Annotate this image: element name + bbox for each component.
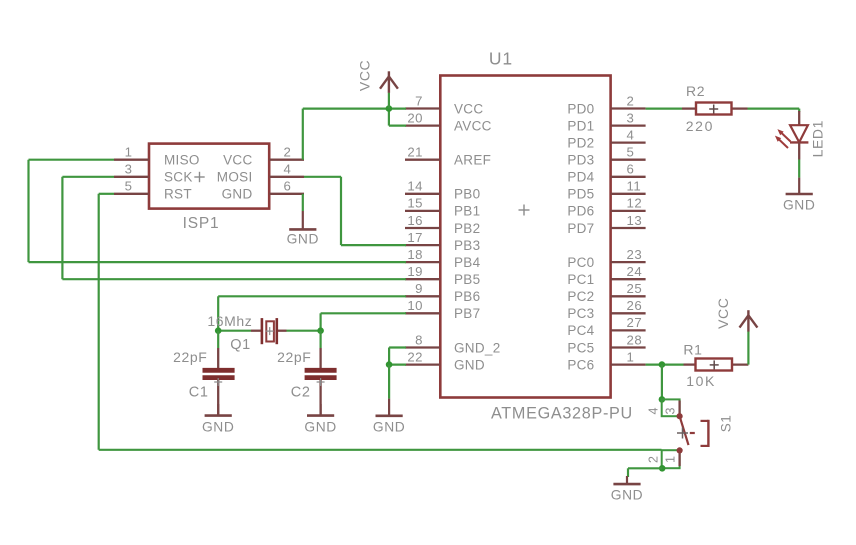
svg-text:2: 2 bbox=[647, 456, 661, 463]
wire PC6 to junction bbox=[646, 364, 684, 366]
svg-text:LED1: LED1 bbox=[810, 120, 826, 157]
resistor R2 bbox=[682, 103, 748, 115]
node XTAL2 junction bbox=[317, 327, 324, 334]
svg-text:PD0: PD0 bbox=[567, 101, 594, 116]
wire GND pin22 left bbox=[389, 364, 406, 366]
crystal Q1 bbox=[251, 318, 287, 344]
wire SCK: ISP pin3 left bbox=[62, 176, 114, 178]
wire XTAL2: U1 PB7 left bbox=[321, 312, 406, 314]
U1 pin 1 PC6 (right) bbox=[567, 349, 645, 372]
U1 pin 26 PC3 (right) bbox=[567, 298, 645, 321]
switch S1 pin 1 label bbox=[663, 456, 677, 463]
resistor R1 bbox=[684, 359, 749, 371]
wire RST: long bottom run to S1 bbox=[99, 449, 662, 451]
svg-text:21: 21 bbox=[407, 145, 423, 160]
svg-text:12: 12 bbox=[627, 196, 643, 211]
switch S1 top contact loop bbox=[662, 399, 683, 419]
svg-text:PB3: PB3 bbox=[454, 238, 480, 253]
svg-text:1: 1 bbox=[663, 456, 677, 463]
switch S1 lever bbox=[680, 416, 689, 445]
wire C2 top bbox=[320, 331, 322, 348]
capacitor C1 label bbox=[189, 384, 209, 400]
svg-text:R2: R2 bbox=[686, 83, 705, 99]
wire junction down to S1 bbox=[661, 365, 663, 400]
svg-text:C1: C1 bbox=[189, 384, 209, 400]
svg-text:PB7: PB7 bbox=[454, 306, 480, 321]
svg-text:PC6: PC6 bbox=[567, 357, 594, 372]
resistor R1 value 10K bbox=[686, 373, 716, 389]
svg-text:PC3: PC3 bbox=[567, 306, 594, 321]
node S1 top junction bbox=[659, 396, 666, 403]
U1 pin 21 AREF (left) bbox=[405, 145, 491, 168]
svg-text:MISO: MISO bbox=[164, 153, 200, 168]
U1 pin 5 PD3 (right) bbox=[567, 145, 645, 168]
svg-text:S1: S1 bbox=[719, 415, 734, 433]
svg-text:10: 10 bbox=[407, 298, 423, 313]
ISP1 pin 4 MOSI (right) bbox=[217, 162, 304, 185]
wire crystal left segment bbox=[218, 330, 251, 332]
svg-text:PD1: PD1 bbox=[567, 118, 594, 133]
svg-text:PC0: PC0 bbox=[567, 255, 594, 270]
resistor R2 label bbox=[686, 83, 705, 99]
U1 pin 15 PB1 (left) bbox=[405, 196, 480, 219]
IC U1 value label ATMEGA328P-PU bbox=[491, 404, 633, 422]
switch S1 pin 4 label bbox=[647, 408, 661, 415]
node GND junction bbox=[386, 361, 393, 368]
ground GND at ISP1 bbox=[287, 211, 319, 247]
svg-text:GND: GND bbox=[304, 419, 336, 434]
svg-text:2: 2 bbox=[284, 145, 292, 160]
svg-text:PC5: PC5 bbox=[567, 340, 594, 355]
svg-text:ATMEGA328P-PU: ATMEGA328P-PU bbox=[491, 404, 633, 422]
connector ISP1 body bbox=[149, 144, 269, 209]
svg-text:22: 22 bbox=[407, 349, 423, 364]
svg-text:GND: GND bbox=[222, 187, 253, 202]
svg-text:22pF: 22pF bbox=[277, 349, 311, 365]
U1 pin 11 PD5 (right) bbox=[567, 179, 645, 202]
node XTAL1 junction bbox=[215, 327, 222, 334]
U1 pin 24 PC1 (right) bbox=[567, 264, 645, 287]
svg-text:PB4: PB4 bbox=[454, 255, 481, 270]
svg-text:1: 1 bbox=[627, 349, 635, 364]
svg-text:26: 26 bbox=[627, 298, 643, 313]
svg-text:SCK: SCK bbox=[164, 170, 193, 185]
wire PD0 to R2 bbox=[646, 107, 682, 109]
svg-text:10K: 10K bbox=[686, 373, 716, 389]
wire GND_2 pin8 left bbox=[389, 346, 406, 348]
wire MOSI: down bbox=[340, 177, 342, 245]
wire ISP GND down bbox=[302, 194, 304, 211]
ground GND at LED1 bbox=[783, 178, 815, 213]
power VCC label (right) bbox=[715, 298, 731, 329]
svg-text:5: 5 bbox=[627, 145, 635, 160]
wire LED corner down bbox=[798, 109, 800, 112]
switch S1 pin 3 label bbox=[663, 408, 677, 415]
U1 pin 23 PC0 (right) bbox=[567, 247, 645, 270]
svg-text:GND_2: GND_2 bbox=[454, 340, 501, 355]
ground GND at C1 bbox=[202, 404, 234, 434]
svg-text:AVCC: AVCC bbox=[454, 118, 492, 133]
U1 pin 17 PB3 (left) bbox=[405, 230, 480, 253]
ground GND at S1 bbox=[611, 476, 643, 503]
svg-text:VCC: VCC bbox=[223, 153, 252, 168]
svg-text:PD2: PD2 bbox=[567, 135, 594, 150]
svg-text:GND: GND bbox=[373, 419, 405, 434]
svg-text:27: 27 bbox=[627, 315, 643, 330]
LED LED1 label bbox=[810, 120, 826, 157]
wire GND_2 down bbox=[388, 348, 390, 365]
U1 pin 2 PD0 (right) bbox=[567, 93, 645, 116]
svg-text:14: 14 bbox=[407, 179, 423, 194]
svg-text:15: 15 bbox=[407, 196, 423, 211]
svg-text:6: 6 bbox=[284, 179, 292, 194]
U1 pin 25 PC2 (right) bbox=[567, 281, 645, 304]
wire R2 to LED corner bbox=[748, 107, 800, 109]
U1 pin 13 PD7 (right) bbox=[567, 213, 645, 236]
U1 pin 9 PB6 (left) bbox=[405, 281, 480, 304]
connector ISP1 label bbox=[183, 215, 220, 232]
node VCC junction bbox=[386, 105, 393, 112]
svg-text:MOSI: MOSI bbox=[217, 170, 253, 185]
svg-text:8: 8 bbox=[415, 332, 423, 347]
svg-text:16: 16 bbox=[407, 213, 423, 228]
svg-text:GND: GND bbox=[454, 357, 485, 372]
svg-text:PB0: PB0 bbox=[454, 187, 480, 202]
wire RST: down rail bbox=[98, 194, 100, 450]
U1 pin 22 GND (left) bbox=[405, 349, 485, 372]
svg-text:GND: GND bbox=[287, 232, 319, 247]
wire down to ground bbox=[388, 365, 390, 399]
ISP1 pin 3 SCK (left) bbox=[114, 162, 193, 185]
svg-text:4: 4 bbox=[627, 127, 635, 142]
IC U1 name label bbox=[489, 49, 513, 69]
svg-text:13: 13 bbox=[627, 213, 643, 228]
svg-text:PD5: PD5 bbox=[567, 187, 594, 202]
switch S1 origin cross bbox=[677, 428, 688, 439]
svg-text:4: 4 bbox=[647, 408, 661, 415]
svg-text:PB6: PB6 bbox=[454, 289, 480, 304]
ISP1 pin 5 RST (left) bbox=[114, 179, 192, 202]
wire XTAL2: down to crystal bbox=[320, 313, 322, 330]
switch S1 pin 2 label bbox=[647, 456, 661, 463]
svg-text:24: 24 bbox=[627, 264, 643, 279]
switch S1 bottom contact loop bbox=[662, 447, 683, 468]
U1 pin 7 VCC (left) bbox=[405, 93, 483, 116]
U1 pin 8 GND_2 (left) bbox=[405, 332, 501, 355]
svg-text:GND: GND bbox=[202, 419, 234, 434]
resistor R1 label bbox=[683, 342, 702, 358]
svg-text:28: 28 bbox=[627, 332, 643, 347]
svg-text:3: 3 bbox=[663, 408, 677, 415]
svg-text:PD3: PD3 bbox=[567, 153, 594, 168]
wire SCK: down rail bbox=[61, 177, 63, 279]
svg-text:PC1: PC1 bbox=[567, 272, 594, 287]
svg-text:GND: GND bbox=[611, 488, 643, 503]
wire XTAL1: down to crystal bbox=[217, 296, 219, 330]
U1 pin 14 PB0 (left) bbox=[405, 179, 480, 202]
svg-text:11: 11 bbox=[627, 179, 642, 194]
svg-text:U1: U1 bbox=[489, 49, 513, 69]
svg-text:7: 7 bbox=[415, 93, 423, 108]
wire VCC junction to U1 pin7 bbox=[389, 107, 406, 109]
svg-text:VCC: VCC bbox=[715, 298, 731, 329]
capacitor C2 bbox=[305, 348, 337, 416]
LED LED1 bbox=[775, 111, 809, 160]
svg-text:1: 1 bbox=[125, 145, 133, 160]
U1 pin 19 PB5 (left) bbox=[405, 264, 480, 287]
svg-text:Q1: Q1 bbox=[230, 337, 251, 353]
svg-text:PD7: PD7 bbox=[567, 221, 594, 236]
wire crystal right segment bbox=[287, 330, 321, 332]
svg-text:AREF: AREF bbox=[454, 153, 491, 168]
svg-text:4: 4 bbox=[284, 162, 292, 177]
svg-text:3: 3 bbox=[627, 110, 635, 125]
svg-text:VCC: VCC bbox=[454, 101, 483, 116]
svg-text:GND: GND bbox=[783, 197, 815, 212]
svg-text:R1: R1 bbox=[683, 342, 702, 358]
U1 pin 27 PC4 (right) bbox=[567, 315, 645, 338]
svg-text:PB1: PB1 bbox=[454, 204, 480, 219]
power VCC symbol (right) bbox=[740, 310, 758, 331]
svg-text:18: 18 bbox=[407, 247, 423, 262]
svg-text:17: 17 bbox=[407, 230, 423, 245]
wire MISO: ISP pin1 left bbox=[29, 159, 115, 161]
IC U1 ATMEGA328P-PU body bbox=[440, 76, 610, 398]
U1 pin 10 PB7 (left) bbox=[405, 298, 480, 321]
svg-text:PC4: PC4 bbox=[567, 323, 594, 338]
svg-text:PD4: PD4 bbox=[567, 170, 594, 185]
ground GND at C2 bbox=[304, 404, 336, 434]
svg-text:16Mhz: 16Mhz bbox=[207, 313, 252, 329]
wire MOSI: ISP pin4 right bbox=[304, 176, 341, 178]
U1 pin 20 AVCC (left) bbox=[405, 110, 492, 133]
ground GND at U1 bbox=[373, 399, 405, 435]
wire AVCC row to U1 pin20 bbox=[389, 124, 406, 126]
U1 pin 3 PD1 (right) bbox=[567, 110, 645, 133]
node S1 bottom junction bbox=[659, 465, 666, 472]
U1 pin 16 PB2 (left) bbox=[405, 213, 480, 236]
wire VCC net: ISP pin2 up bbox=[302, 109, 304, 160]
switch S1 actuator bbox=[690, 420, 709, 447]
svg-text:6: 6 bbox=[627, 162, 635, 177]
U1 pin 12 PD6 (right) bbox=[567, 196, 645, 219]
svg-text:C2: C2 bbox=[291, 384, 311, 400]
svg-text:2: 2 bbox=[627, 93, 635, 108]
power VCC label (top) bbox=[357, 60, 373, 91]
wire S1 to ground bbox=[628, 468, 662, 477]
switch S1 label bbox=[719, 415, 734, 433]
crystal Q1 label bbox=[230, 337, 251, 353]
svg-text:5: 5 bbox=[125, 179, 133, 194]
node PC6 junction bbox=[659, 361, 666, 368]
capacitor C2 label bbox=[291, 384, 311, 400]
crystal Q1 value 16Mhz bbox=[207, 313, 252, 329]
capacitor C1 value 22pF bbox=[173, 349, 207, 365]
svg-text:25: 25 bbox=[627, 281, 643, 296]
ISP1 pin 1 MISO (left) bbox=[114, 145, 200, 168]
svg-text:3: 3 bbox=[125, 162, 133, 177]
wire SCK: to U1 PB5 bbox=[62, 278, 406, 280]
svg-text:22pF: 22pF bbox=[173, 349, 207, 365]
wire MISO: down left rail bbox=[27, 160, 29, 262]
capacitor C1 bbox=[203, 348, 235, 416]
svg-text:VCC: VCC bbox=[357, 60, 373, 91]
U1 pin 28 PC5 (right) bbox=[567, 332, 645, 355]
wire VCC junction down to AVCC row bbox=[388, 109, 390, 126]
svg-text:220: 220 bbox=[686, 118, 714, 134]
svg-text:PB5: PB5 bbox=[454, 272, 480, 287]
wire MISO: to U1 PB4 bbox=[29, 261, 407, 263]
wire RST: ISP pin5 left bbox=[99, 193, 114, 195]
U1 pin 18 PB4 (left) bbox=[405, 247, 481, 270]
wire MOSI: to U1 PB3 bbox=[341, 244, 406, 246]
svg-text:9: 9 bbox=[415, 281, 423, 296]
resistor R2 value 220 bbox=[686, 118, 714, 134]
wire VCC net: horizontal to junction bbox=[303, 107, 389, 109]
svg-text:PC2: PC2 bbox=[567, 289, 594, 304]
svg-text:23: 23 bbox=[627, 247, 643, 262]
ISP1 pin 2 VCC (right) bbox=[223, 145, 304, 168]
svg-text:20: 20 bbox=[407, 110, 423, 125]
wire C1 top bbox=[217, 331, 219, 348]
wire LED to ground bbox=[798, 160, 800, 178]
U1 pin 4 PD2 (right) bbox=[567, 127, 645, 150]
capacitor C2 value 22pF bbox=[277, 349, 311, 365]
svg-text:PD6: PD6 bbox=[567, 204, 594, 219]
svg-text:RST: RST bbox=[164, 187, 192, 202]
svg-text:PB2: PB2 bbox=[454, 221, 480, 236]
svg-text:19: 19 bbox=[407, 264, 423, 279]
ISP1 pin 6 GND (right) bbox=[222, 179, 304, 202]
U1 pin 6 PD4 (right) bbox=[567, 162, 645, 185]
wire R1 up to VCC bbox=[747, 331, 749, 364]
svg-text:ISP1: ISP1 bbox=[183, 215, 220, 232]
power VCC symbol (top) bbox=[380, 71, 398, 108]
wire XTAL1: U1 PB6 left bbox=[218, 295, 406, 297]
